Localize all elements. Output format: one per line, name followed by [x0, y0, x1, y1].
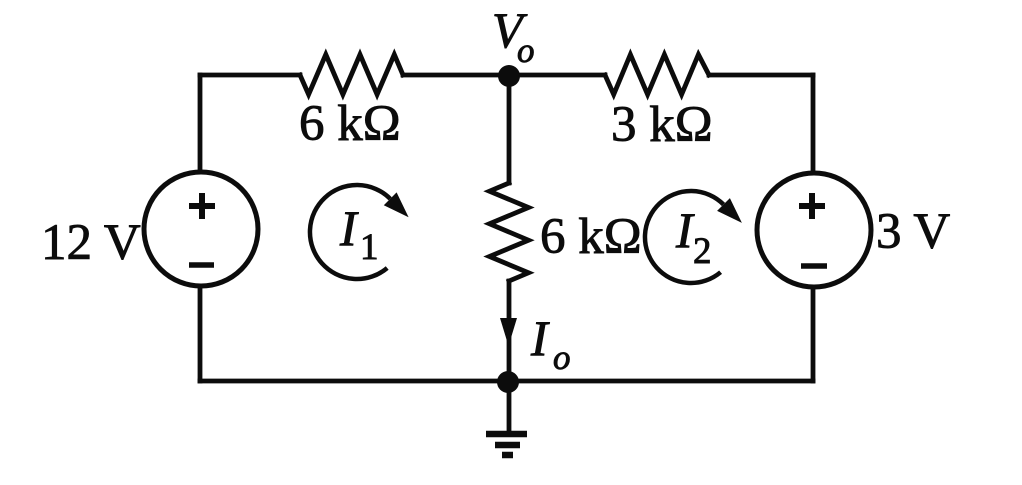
node Vo junction dot: [498, 65, 520, 87]
voltage source V2 circle: [757, 173, 871, 287]
wire top-right horizontal: [709, 73, 813, 78]
svg-text:I: I: [530, 310, 550, 366]
svg-text:I: I: [339, 200, 359, 256]
wire right vertical lower: [811, 287, 816, 381]
minus sign of V2: [801, 263, 827, 269]
wire top-middle: [403, 73, 605, 78]
wire ground stem: [507, 381, 512, 431]
svg-text:3 kΩ: 3 kΩ: [611, 97, 713, 153]
mesh current I1 arc: [310, 185, 390, 279]
wire left vertical lower: [198, 286, 203, 381]
wire top-left horizontal: [200, 73, 300, 78]
voltage source V1 circle: [144, 172, 258, 286]
wire middle vertical lower: [507, 281, 512, 381]
resistor R3 6 kOhm middle zigzag: [490, 183, 529, 281]
plus sign of V1: [189, 193, 215, 219]
wire middle vertical upper: [507, 75, 512, 183]
resistor R1 6 kOhm top-left zigzag: [300, 55, 403, 95]
svg-text:o: o: [517, 31, 535, 70]
svg-text:12 V: 12 V: [41, 215, 141, 271]
minus sign of V1: [189, 262, 214, 268]
mesh current I1 arrowhead: [384, 192, 409, 217]
wire left vertical upper: [198, 75, 203, 172]
svg-text:6 kΩ: 6 kΩ: [540, 209, 642, 265]
ground symbol bars: [486, 434, 527, 455]
svg-text:o: o: [553, 338, 571, 377]
svg-text:6 kΩ: 6 kΩ: [299, 96, 401, 152]
svg-text:3 V: 3 V: [876, 204, 950, 260]
svg-text:2: 2: [693, 231, 712, 272]
resistor R2 3 kOhm top-right zigzag: [605, 55, 709, 95]
plus sign of V2: [799, 193, 825, 219]
mesh current I2 arrowhead: [717, 198, 742, 223]
wire right vertical upper: [811, 75, 816, 173]
node bottom junction dot: [497, 371, 519, 393]
current arrow Io arrowhead: [500, 318, 517, 346]
mesh current I2 arc: [645, 191, 724, 283]
svg-text:1: 1: [360, 227, 379, 268]
svg-text:I: I: [675, 202, 695, 258]
wire bottom horizontal: [200, 379, 813, 384]
